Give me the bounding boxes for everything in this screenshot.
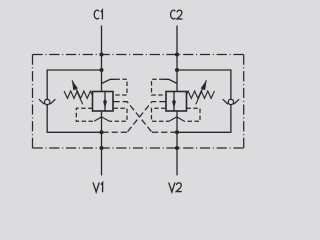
lambda right branch left valve	[102, 117, 110, 121]
cross pilot line from right valve to V1	[127, 102, 166, 133]
junction node V1/bottom wire	[99, 130, 103, 134]
enclosure dash-dot boundary left	[32, 55, 34, 149]
adjustment arrow left spring	[72, 80, 83, 104]
check valve CV1 seat	[39, 99, 55, 104]
junction node V1/boundary	[99, 146, 103, 150]
port line C2	[176, 26, 178, 92]
cross pilot line from left valve to V2	[114, 102, 153, 133]
junction node C2/top wire	[175, 68, 179, 72]
enclosure dash-dot boundary top	[33, 54, 244, 56]
label V1	[93, 182, 99, 192]
wire bottom-right branch	[177, 105, 231, 133]
enclosure dash-dot boundary bottom	[33, 147, 244, 149]
pilot from C1: dashed loop to left valve	[114, 79, 128, 95]
label C1	[94, 10, 99, 19]
drain loop left valve inner (right side)	[109, 108, 127, 121]
lambda right branch right valve	[177, 117, 184, 121]
flow arrow in right valve	[173, 92, 175, 112]
check valve CV2 ball	[228, 99, 233, 104]
junction node V2/boundary	[175, 146, 179, 150]
lambda left branch right valve	[169, 117, 177, 121]
counterbalance valve body V1 (left)	[93, 92, 114, 112]
wire bottom-left branch	[47, 105, 101, 133]
pilot from C2: dashed loop to right valve	[152, 79, 166, 95]
enclosure dash-dot boundary right	[243, 55, 245, 149]
counterbalance valve body V2 (right)	[166, 92, 187, 112]
pilot from C2: solid elbow	[164, 79, 178, 83]
flow arrow in left valve	[104, 92, 106, 112]
junction node V2/bottom wire	[175, 130, 179, 134]
spring right (adjustable)	[186, 91, 214, 98]
check valve CV2 seat	[223, 99, 239, 104]
check valve CV1 ball	[45, 99, 50, 104]
lambda left branch left valve	[94, 117, 101, 121]
port line V1	[101, 111, 103, 175]
port line V2	[176, 111, 178, 175]
spring left (adjustable)	[64, 91, 92, 98]
pilot from C1: solid elbow	[102, 79, 116, 83]
drain loop right valve outer (right side)	[184, 108, 200, 121]
adjustment arrow right spring	[196, 80, 207, 104]
junction node C1/boundary	[99, 52, 103, 56]
wire top-left branch	[47, 70, 101, 99]
drain loop right valve inner (left side)	[152, 108, 170, 121]
label C2	[171, 10, 176, 19]
junction node C1/top wire	[99, 68, 103, 72]
drain loop left valve outer (left side)	[76, 108, 94, 121]
junction node C2/boundary	[175, 52, 179, 56]
port line C1	[101, 26, 103, 92]
label V2	[169, 182, 175, 192]
wire top-right branch	[177, 70, 231, 99]
